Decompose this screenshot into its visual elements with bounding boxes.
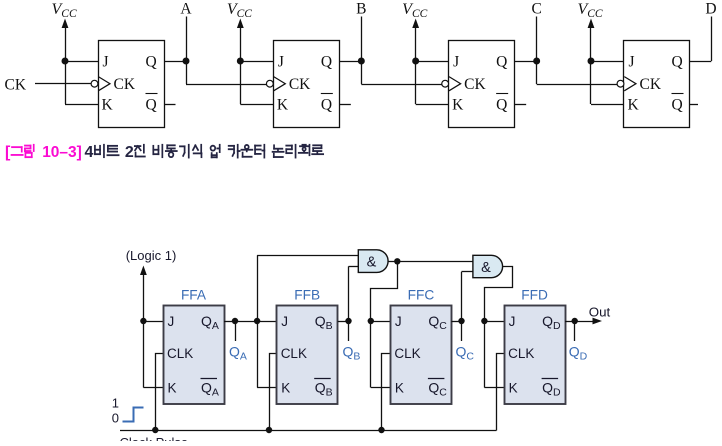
svg-text:K: K — [452, 97, 464, 114]
svg-text:A: A — [180, 1, 192, 18]
svg-text:C: C — [531, 1, 541, 18]
svg-text:FFB: FFB — [294, 288, 320, 303]
svg-text:0: 0 — [112, 411, 119, 426]
svg-text:Q: Q — [671, 53, 682, 70]
svg-text:K: K — [395, 380, 404, 395]
svg-text:J: J — [395, 314, 402, 329]
svg-text:FFC: FFC — [408, 288, 435, 303]
svg-text:CK: CK — [289, 76, 311, 93]
svg-text:K: K — [509, 380, 518, 395]
svg-text:Q: Q — [146, 53, 157, 70]
svg-text:Out: Out — [589, 305, 611, 320]
svg-text:J: J — [103, 53, 109, 70]
svg-text:Q: Q — [321, 53, 332, 70]
svg-text:Q: Q — [496, 53, 507, 70]
svg-text:J: J — [281, 314, 288, 329]
svg-text:FFA: FFA — [181, 288, 207, 303]
svg-text:FFD: FFD — [521, 288, 548, 303]
svg-text:J: J — [509, 314, 516, 329]
svg-text:Clock Pulse: Clock Pulse — [120, 435, 189, 441]
svg-text:10–3]: 10–3] — [42, 144, 82, 161]
svg-text:K: K — [102, 97, 114, 114]
svg-text:K: K — [277, 97, 289, 114]
svg-text:&: & — [367, 254, 377, 270]
svg-text:D: D — [705, 1, 716, 18]
svg-text:CK: CK — [114, 76, 136, 93]
svg-text:CLK: CLK — [167, 346, 193, 361]
svg-text:1: 1 — [112, 396, 119, 411]
svg-text:J: J — [453, 53, 459, 70]
svg-text:(Logic 1): (Logic 1) — [126, 248, 177, 263]
svg-text:[: [ — [5, 144, 11, 161]
svg-text:Q: Q — [321, 97, 332, 114]
svg-text:Q: Q — [146, 97, 157, 114]
svg-text:J: J — [168, 314, 175, 329]
svg-text:Q: Q — [496, 97, 507, 114]
svg-text:CK: CK — [464, 76, 486, 93]
svg-text:CLK: CLK — [508, 346, 534, 361]
svg-text:CLK: CLK — [281, 346, 307, 361]
svg-text:K: K — [627, 97, 639, 114]
svg-text:J: J — [278, 53, 284, 70]
svg-text:CLK: CLK — [394, 346, 420, 361]
svg-text:K: K — [281, 380, 290, 395]
svg-text:J: J — [628, 53, 634, 70]
svg-text:K: K — [168, 380, 177, 395]
svg-text:Q: Q — [671, 97, 682, 114]
svg-text:CK: CK — [5, 77, 27, 94]
svg-text:4: 4 — [85, 144, 94, 161]
svg-text:CK: CK — [639, 76, 661, 93]
svg-text:B: B — [356, 1, 366, 18]
svg-text:2: 2 — [125, 144, 134, 161]
svg-text:&: & — [481, 260, 491, 276]
